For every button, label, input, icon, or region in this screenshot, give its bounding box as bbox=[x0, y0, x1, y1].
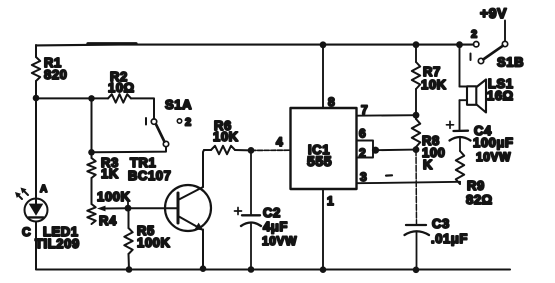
node R3 top junction bbox=[88, 149, 95, 156]
svg-text:10VW: 10VW bbox=[262, 234, 297, 248]
resistor R7 bbox=[412, 45, 447, 116]
switch S1B bbox=[471, 29, 525, 70]
wire S1A pole to R3 top junction bbox=[92, 147, 167, 153]
pin 6 / pin 2 wires bbox=[357, 127, 374, 161]
svg-text:1: 1 bbox=[327, 194, 334, 208]
node pins 2-6 junction bbox=[372, 147, 379, 154]
node emitter ground junction bbox=[200, 265, 207, 272]
svg-text:16Ω: 16Ω bbox=[487, 88, 514, 103]
resistor R8 bbox=[412, 115, 446, 172]
svg-text:R4: R4 bbox=[99, 213, 117, 228]
svg-text:100K: 100K bbox=[137, 235, 170, 250]
svg-text:820: 820 bbox=[44, 67, 68, 82]
wire junction to IC pin 4 bbox=[251, 135, 291, 150]
node R5 ground junction bbox=[126, 266, 133, 273]
pin 1 wire bbox=[323, 189, 334, 270]
svg-text:10Ω: 10Ω bbox=[108, 80, 135, 95]
node R8 / pins 2-6 junction bbox=[413, 146, 420, 153]
supply +9V bbox=[480, 5, 507, 41]
capacitor C3 bbox=[405, 216, 468, 270]
svg-text:6: 6 bbox=[359, 127, 366, 141]
node speaker rail junction bbox=[456, 41, 463, 48]
svg-text:C2: C2 bbox=[263, 205, 281, 220]
svg-text:A: A bbox=[40, 184, 48, 195]
switch S1A bbox=[146, 97, 192, 147]
svg-text:.01μF: .01μF bbox=[431, 231, 468, 246]
node pin 8 rail junction bbox=[320, 41, 327, 48]
wire R8 junction down to C3 bbox=[415, 150, 418, 225]
node C2 ground junction bbox=[248, 266, 255, 273]
node R1 bottom junction bbox=[33, 95, 40, 102]
LED LED1 TIL209 bbox=[22, 184, 80, 251]
svg-text:C: C bbox=[22, 225, 31, 239]
wire R3 to R4 bbox=[91, 178, 93, 204]
node R6 / C2 junction bbox=[248, 147, 255, 154]
wire pins 2-6 to R8 bbox=[376, 149, 417, 152]
svg-text:R9: R9 bbox=[467, 178, 485, 193]
wire top supply rail bbox=[36, 44, 474, 46]
node R7 rail junction bbox=[413, 41, 420, 48]
svg-text:+9V: +9V bbox=[480, 5, 507, 21]
resistor R6 bbox=[204, 118, 251, 154]
pin 7 wire bbox=[357, 103, 417, 117]
svg-text:TIL209: TIL209 bbox=[35, 236, 80, 251]
resistor R5 bbox=[124, 208, 170, 269]
wire R1 junction to R2 bbox=[36, 97, 108, 99]
svg-text:82Ω: 82Ω bbox=[466, 192, 493, 207]
svg-text:K: K bbox=[423, 157, 433, 172]
potentiometer R4 bbox=[87, 189, 130, 228]
svg-text:S1B: S1B bbox=[497, 55, 524, 70]
svg-text:2: 2 bbox=[471, 29, 478, 41]
LED light emission arrows bbox=[15, 188, 28, 200]
svg-text:4μF: 4μF bbox=[263, 219, 288, 234]
svg-text:1K: 1K bbox=[101, 166, 119, 181]
op-amp U1: IC1 555 timer box bbox=[291, 108, 357, 189]
node pin 1 ground junction bbox=[320, 266, 327, 273]
wire R2 to switch S1A bbox=[131, 98, 154, 119]
svg-text:100μF: 100μF bbox=[473, 135, 514, 150]
svg-text:10K: 10K bbox=[421, 77, 447, 92]
svg-text:8: 8 bbox=[328, 95, 335, 109]
svg-text:C3: C3 bbox=[432, 216, 450, 231]
node R7 / pin7 junction bbox=[413, 112, 420, 119]
capacitor C2 bbox=[235, 150, 298, 269]
svg-text:BC107: BC107 bbox=[128, 168, 171, 183]
resistor R2 bbox=[108, 69, 135, 103]
svg-text:2: 2 bbox=[185, 117, 192, 129]
svg-text:4: 4 bbox=[276, 135, 283, 149]
node R2 left junction bbox=[88, 95, 95, 102]
wire TR1 collector to R6 bbox=[203, 150, 204, 187]
capacitor C4 bbox=[447, 121, 514, 164]
node R4 wiper / R5 / base junction bbox=[125, 201, 132, 212]
svg-text:10VW: 10VW bbox=[476, 150, 511, 164]
svg-text:2: 2 bbox=[359, 146, 366, 160]
resistor R9 bbox=[456, 151, 493, 207]
wire TR1 emitter to ground bbox=[202, 230, 204, 270]
resistor R1 bbox=[32, 55, 68, 82]
transistor TR1 BC107 bbox=[128, 155, 211, 231]
svg-text:7: 7 bbox=[361, 103, 368, 117]
resistor R3 bbox=[87, 155, 119, 181]
pin 8 wire bbox=[323, 45, 335, 109]
wire left rail bbox=[35, 45, 37, 269]
svg-text:10K: 10K bbox=[213, 129, 239, 144]
svg-text:3: 3 bbox=[360, 170, 367, 184]
svg-text:100K: 100K bbox=[97, 189, 130, 204]
svg-text:S1A: S1A bbox=[165, 97, 192, 112]
wire bottom ground rail bbox=[36, 268, 510, 270]
svg-text:555: 555 bbox=[307, 153, 332, 169]
pin 3 wire to R9 bbox=[357, 170, 461, 184]
node C3 ground junction bbox=[413, 267, 420, 274]
wire R2 junction down to R3 bbox=[91, 98, 93, 158]
loudspeaker LS1 bbox=[460, 45, 514, 131]
